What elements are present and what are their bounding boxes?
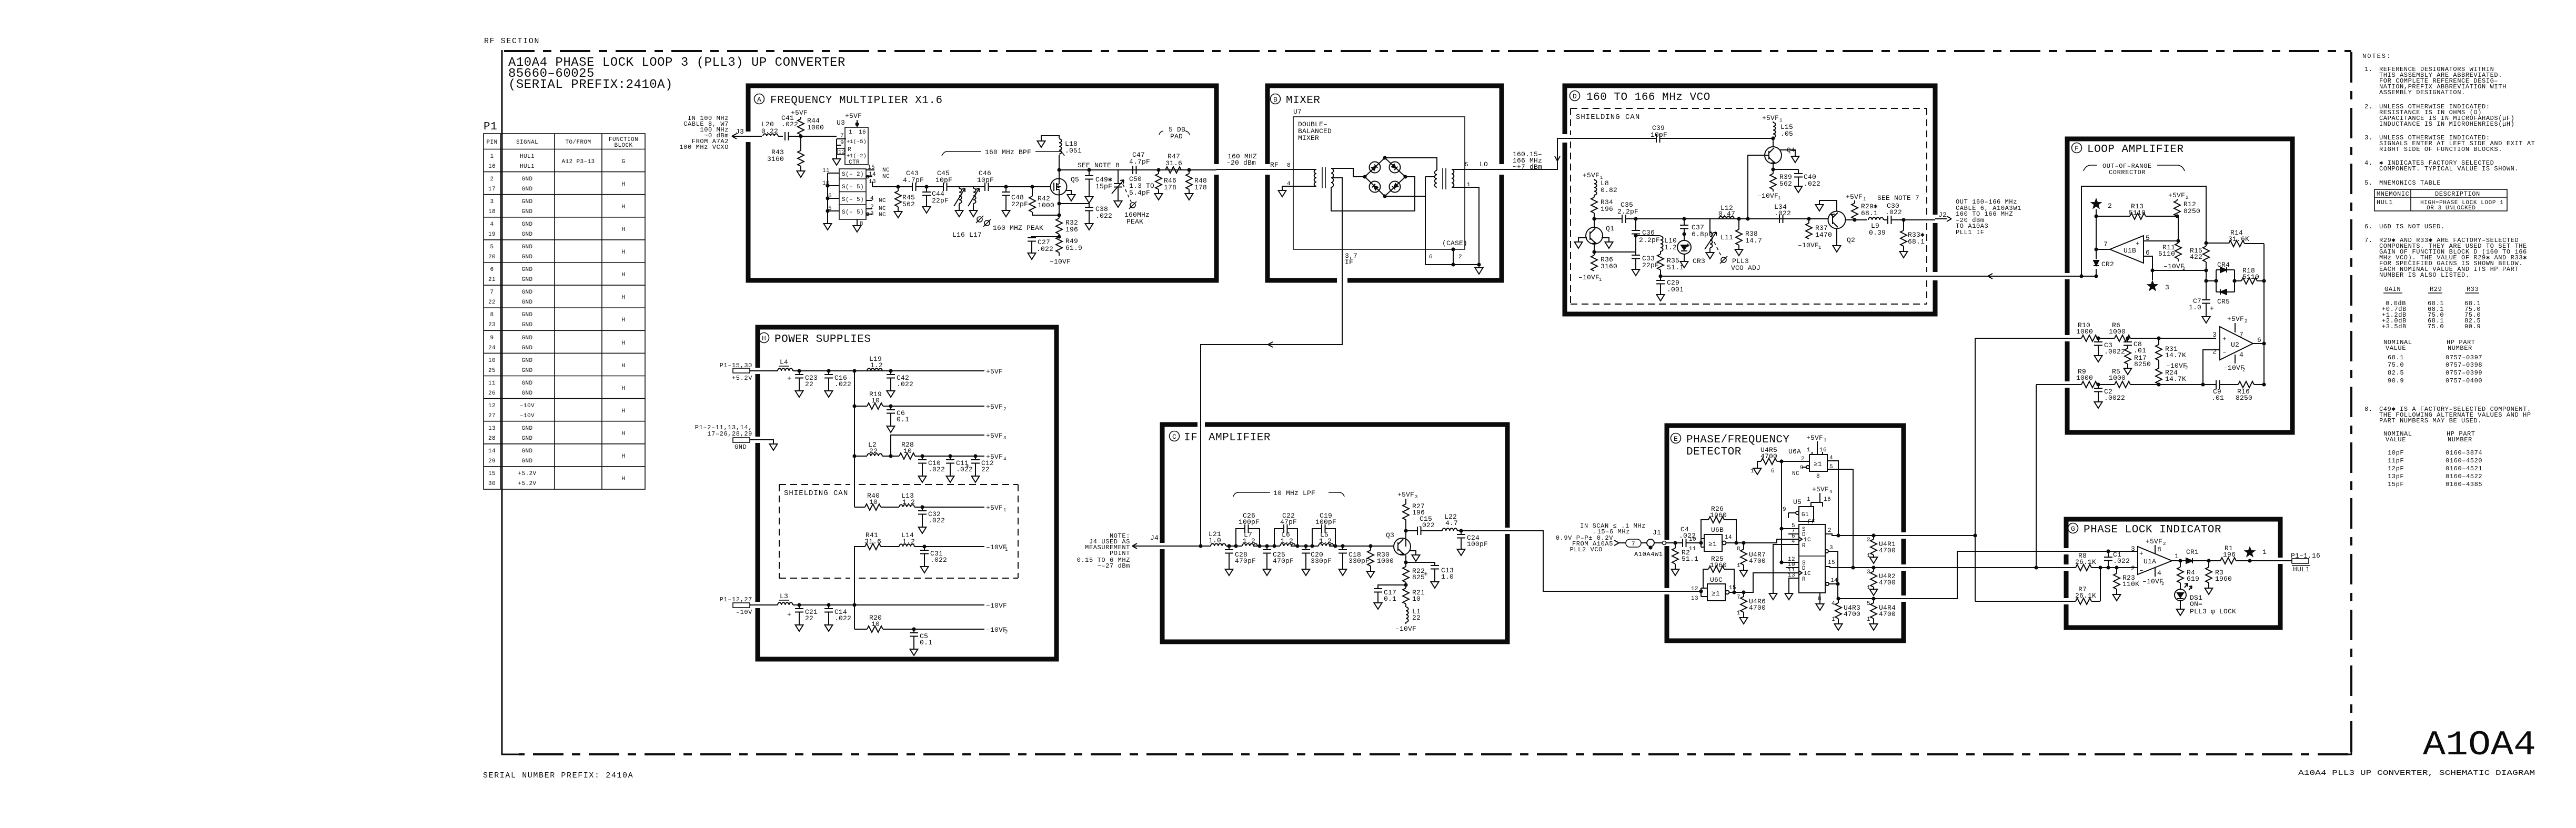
ground case: [1475, 266, 1483, 274]
svg-text:30: 30: [488, 481, 496, 487]
svg-text:0.22: 0.22: [761, 127, 778, 135]
svg-text:H: H: [621, 249, 625, 256]
resistor R49: [1050, 237, 1082, 266]
svg-text:26.1K: 26.1K: [2075, 558, 2096, 566]
svg-text:E: E: [1674, 435, 1678, 443]
resistor R4: [2177, 561, 2199, 589]
resistor R38: [1736, 217, 1762, 247]
wire IF tap: [1331, 178, 1342, 280]
ground below DS1: [2177, 607, 2185, 615]
capacitor C14: [824, 603, 851, 623]
node block H border: [758, 327, 1056, 659]
svg-text:10: 10: [871, 620, 880, 628]
capacitor C21: [787, 603, 818, 623]
svg-text:+: +: [2139, 550, 2144, 558]
svg-text:31.6: 31.6: [1165, 159, 1182, 167]
svg-text:1.0: 1.0: [1441, 573, 1454, 581]
ground U3 input bus: [824, 221, 832, 230]
resistor R42: [1006, 185, 1054, 212]
svg-text:+5VF: +5VF: [1846, 193, 1863, 201]
svg-text:2: 2: [870, 204, 874, 210]
svg-text:SERIAL NUMBER PREFIX: 2410A: SERIAL NUMBER PREFIX: 2410A: [483, 771, 633, 780]
svg-text:1: 1: [1779, 118, 1782, 123]
capacitor C26 bridge: [1234, 512, 1261, 548]
svg-text:GND: GND: [521, 380, 532, 387]
capacitor C45: [927, 169, 959, 191]
svg-text:19: 19: [488, 231, 496, 238]
wire Q1 emitter: [1592, 243, 1636, 255]
svg-text:0757–0398: 0757–0398: [2446, 361, 2482, 369]
wire J3 input with arrow: [732, 134, 762, 139]
capacitor C15: [1406, 515, 1442, 535]
wire mixer IF output to IF amplifier: [1201, 280, 1342, 546]
svg-text:≥1: ≥1: [1708, 540, 1717, 548]
svg-text:+3.5dB: +3.5dB: [2382, 323, 2407, 330]
svg-text:17–26,28,29: 17–26,28,29: [707, 430, 752, 438]
svg-text:5: 5: [1465, 162, 1468, 168]
svg-text:2: 2: [2185, 366, 2188, 371]
svg-text:4700: 4700: [1749, 604, 1766, 612]
capacitor C48: [1002, 185, 1028, 208]
svg-text:PHASE LOCK INDICATOR: PHASE LOCK INDICATOR: [2084, 524, 2221, 536]
svg-text:Q2: Q2: [1847, 236, 1855, 244]
svg-text:GND: GND: [521, 335, 532, 341]
svg-text:PIN: PIN: [486, 139, 497, 146]
svg-text:1: 1: [1003, 508, 1006, 513]
resistor R46: [1155, 168, 1176, 191]
svg-text:–10V: –10V: [520, 403, 535, 409]
wire Q3 emitter node: [1404, 555, 1435, 567]
svg-text:22pF: 22pF: [1642, 261, 1659, 269]
resistor R5: [2109, 368, 2216, 388]
svg-text:U6A: U6A: [1788, 448, 1801, 456]
ground below C42: [887, 389, 895, 397]
inductor L9: [1868, 217, 1886, 237]
svg-text:+1(–5): +1(–5): [847, 139, 867, 145]
svg-text:NC: NC: [1792, 471, 1799, 477]
svg-text:+5VF: +5VF: [2168, 191, 2185, 199]
svg-text:SIGNAL: SIGNAL: [516, 139, 538, 146]
svg-text:GND: GND: [521, 254, 532, 260]
svg-text:9: 9: [1783, 507, 1786, 513]
svg-text:1.2: 1.2: [1243, 537, 1255, 545]
svg-text:4.: 4.: [2364, 159, 2373, 167]
resistor R47: [1165, 153, 1182, 173]
svg-text:NC: NC: [882, 167, 890, 174]
svg-text:3.: 3.: [2364, 134, 2373, 142]
wire U1A pin3 input line: [2066, 551, 2138, 552]
node block B border: [1267, 86, 1502, 280]
inductor L1: [1406, 607, 1421, 624]
svg-text:GND: GND: [521, 448, 532, 455]
capacitor C8: [2124, 336, 2146, 355]
wire U3 pin13 output to BPF: [872, 181, 898, 187]
svg-text:4.7: 4.7: [1445, 519, 1458, 527]
transistor Q4: [1765, 146, 1795, 164]
svg-text:7: 7: [1737, 594, 1740, 601]
svg-text:G1: G1: [1802, 512, 1809, 518]
svg-text:A12 P3–13: A12 P3–13: [561, 159, 595, 165]
capacitor C28: [1225, 544, 1256, 567]
svg-text:J3: J3: [736, 128, 744, 136]
svg-text:BLOCK: BLOCK: [614, 143, 632, 149]
svg-text:–10VF: –10VF: [986, 602, 1007, 610]
svg-text:H: H: [621, 317, 625, 324]
svg-text:4700: 4700: [1879, 547, 1896, 554]
inductor L18: [1041, 136, 1082, 179]
inductor L12: [1718, 204, 1735, 219]
svg-text:4700: 4700: [1879, 579, 1896, 587]
svg-text:196: 196: [2223, 551, 2236, 559]
resistor R30: [1367, 544, 1394, 569]
svg-text:14: 14: [488, 448, 496, 455]
resistor R37: [1798, 217, 1832, 250]
svg-text:2: 2: [2131, 564, 2135, 572]
wire U6C output to U5 pin11: [1729, 573, 1799, 594]
svg-text:H: H: [762, 335, 766, 342]
svg-text:GND: GND: [521, 458, 532, 465]
resistor U4R4: [1867, 599, 1896, 623]
svg-text:0.39: 0.39: [1869, 229, 1886, 237]
svg-text:–10VF: –10VF: [2164, 262, 2185, 270]
ground U5 ff: [1816, 593, 1824, 610]
ground below C18: [1339, 567, 1347, 575]
wire J2 output: [1935, 211, 1951, 221]
svg-text:H: H: [621, 386, 625, 392]
svg-text:L11: L11: [1720, 234, 1733, 241]
svg-text:GND: GND: [521, 426, 532, 432]
svg-text:–: –: [2136, 254, 2140, 262]
svg-text:TO/FROM: TO/FROM: [565, 139, 591, 146]
ground below C32: [919, 525, 927, 533]
ground below L16: [955, 208, 963, 217]
svg-text:3: 3: [1415, 494, 1417, 500]
wire Q4 emitter node: [1771, 164, 1798, 174]
svg-text:12: 12: [488, 403, 496, 409]
node tuning tool symbols: [976, 216, 983, 223]
wire U5 pin10 stub: [1786, 567, 1799, 568]
capacitor C47: [1129, 151, 1150, 174]
svg-text:8: 8: [2157, 546, 2161, 553]
resistor R33 (factory selected): [1900, 218, 1925, 249]
svg-text:(SERIAL PREFIX:2410A): (SERIAL PREFIX:2410A): [508, 78, 673, 92]
svg-text:P1: P1: [484, 121, 497, 133]
svg-text:31.6K: 31.6K: [2228, 235, 2249, 243]
wire VCO LO feed to mixer: [1502, 138, 1565, 171]
svg-text:196: 196: [1601, 205, 1613, 213]
svg-text:POINT: POINT: [1110, 550, 1130, 557]
ground P1 GND: [770, 442, 778, 450]
wire U5 pin13 reset to ground: [1785, 578, 1799, 600]
svg-text:8250: 8250: [2183, 207, 2200, 215]
svg-text:1: 1: [1824, 438, 1826, 443]
svg-text:10: 10: [488, 358, 496, 364]
wire U5 pin3 output: [1825, 545, 1838, 584]
ground below U4R3: [1835, 622, 1843, 630]
svg-text:51.1: 51.1: [1667, 264, 1684, 271]
svg-text:9: 9: [1800, 465, 1804, 471]
resistor R29 (factory selected): [1846, 193, 1878, 222]
wire Q5 shield ground: [1065, 190, 1071, 193]
svg-text:H: H: [621, 340, 625, 347]
svg-text:U5: U5: [1793, 498, 1802, 506]
wire U6B output: [1726, 539, 1799, 543]
wire E output A to F and G: [1906, 338, 2067, 601]
svg-text:68.1: 68.1: [1908, 238, 1925, 246]
svg-text:178: 178: [1164, 184, 1176, 191]
ground below C11: [947, 474, 954, 482]
svg-text:75.0: 75.0: [2428, 323, 2444, 330]
svg-text:0160–4385: 0160–4385: [2446, 481, 2482, 488]
svg-text:68.1: 68.1: [2388, 354, 2404, 361]
resistor R31: [2156, 336, 2186, 360]
ground below C7: [2202, 315, 2210, 323]
svg-text:14: 14: [1725, 534, 1732, 541]
svg-text:2: 2: [2108, 202, 2112, 210]
svg-text:RIGHT SIDE OF FUNCTION BLOCKS.: RIGHT SIDE OF FUNCTION BLOCKS.: [2379, 146, 2502, 153]
svg-text:R: R: [1802, 577, 1806, 583]
svg-text:562: 562: [902, 200, 915, 208]
svg-text:U1B: U1B: [2124, 247, 2136, 255]
resistor R26: [1701, 505, 1738, 545]
svg-text:NC: NC: [882, 174, 890, 180]
svg-text:18: 18: [488, 209, 496, 215]
svg-text:22: 22: [1412, 614, 1421, 622]
svg-text:(CASE): (CASE): [1442, 239, 1467, 247]
ground U3 pin9: [833, 157, 841, 165]
svg-text:U6B: U6B: [1711, 526, 1724, 534]
svg-text:.022: .022: [1037, 245, 1053, 253]
svg-text:GND: GND: [521, 299, 532, 306]
capacitor C36: [1632, 217, 1660, 255]
wire Q5 source node: [1057, 195, 1061, 218]
node block G border: [2066, 519, 2280, 628]
wire ring top vertex to T2: [1385, 158, 1437, 170]
svg-text:H: H: [621, 431, 625, 437]
svg-text:5.: 5.: [2364, 179, 2373, 187]
svg-text:100pF: 100pF: [1467, 540, 1488, 548]
node P1 table header: [486, 137, 638, 149]
wire IF main line: [1162, 546, 1394, 547]
resistor R2: [1672, 541, 1698, 567]
resistor R23: [2114, 566, 2139, 592]
ground below R30: [1367, 569, 1375, 578]
svg-text:4: 4: [1003, 457, 1006, 462]
svg-text:J4: J4: [1150, 534, 1159, 542]
resistor U4R5: [1750, 446, 1809, 474]
svg-text:+5VF: +5VF: [845, 112, 862, 120]
svg-text:R: R: [1802, 543, 1806, 549]
inductor L22: [1442, 513, 1507, 531]
svg-text:FREQUENCY MULTIPLIER X1.6: FREQUENCY MULTIPLIER X1.6: [770, 95, 943, 107]
svg-text:MIXER: MIXER: [1286, 95, 1321, 107]
svg-text:2: 2: [1003, 407, 1006, 412]
svg-text:–: –: [2139, 567, 2144, 574]
wire gate feed: [1032, 186, 1051, 187]
svg-text:–10V: –10V: [736, 609, 752, 616]
svg-text:SHIELDING CAN: SHIELDING CAN: [784, 489, 848, 498]
svg-text:≥1: ≥1: [1712, 590, 1720, 598]
svg-text:22: 22: [805, 380, 813, 388]
capacitor C12: [965, 454, 994, 474]
LED DS1: [2175, 583, 2236, 615]
svg-text:GND: GND: [521, 176, 532, 183]
svg-text:J1: J1: [1653, 529, 1661, 537]
capacitor C4: [1679, 526, 1701, 547]
svg-text:4700: 4700: [1749, 557, 1766, 565]
svg-text:–10VF: –10VF: [2142, 578, 2164, 585]
resistor R44: [791, 109, 824, 136]
inductor L10: [1636, 236, 1677, 251]
ground below R23: [2113, 592, 2121, 601]
svg-text:GND: GND: [521, 267, 532, 273]
capacitor C46: [973, 169, 1006, 191]
resistor R35: [1657, 251, 1684, 280]
ground below L11: [1706, 250, 1714, 259]
node diode ring: [1363, 156, 1407, 198]
ground below C50: [1114, 199, 1122, 207]
wire VCO tune line: [1661, 274, 2067, 279]
svg-text:1: 1: [1737, 610, 1740, 617]
svg-text:160 MHZ PEAK: 160 MHZ PEAK: [993, 224, 1043, 232]
wire U5 pin7 stub: [1788, 533, 1799, 534]
wire Q4 base riser: [1746, 155, 1765, 221]
resistor R16: [2220, 381, 2264, 402]
svg-text:1: 1: [1867, 617, 1870, 623]
svg-text:–10VF: –10VF: [2223, 364, 2245, 372]
capacitor C16: [824, 369, 851, 389]
capacitor C43: [898, 169, 927, 191]
ground below C10: [919, 474, 927, 482]
svg-text:Q3: Q3: [1386, 531, 1394, 539]
resistor R14: [2206, 229, 2264, 247]
svg-text:100pF: 100pF: [1315, 518, 1336, 526]
svg-text:ON=: ON=: [2190, 600, 2202, 608]
wire U6A pin5 drop: [1827, 469, 1853, 568]
svg-text:.0022: .0022: [2104, 348, 2125, 356]
svg-text:1000: 1000: [2109, 374, 2126, 382]
ground below C5: [910, 647, 918, 655]
svg-text:~–27 dBm: ~–27 dBm: [1098, 562, 1130, 570]
svg-text:11pF: 11pF: [2388, 457, 2404, 465]
svg-text:2: 2: [2161, 581, 2164, 587]
resistor R21: [1403, 588, 1425, 607]
inductor L16 (tunable): [954, 187, 965, 208]
wire feedback vertical: [2262, 244, 2266, 387]
svg-text:3: 3: [1829, 545, 1833, 551]
resistor R18: [2235, 267, 2264, 284]
svg-text:11: 11: [488, 380, 496, 387]
svg-text:26: 26: [488, 390, 496, 397]
capacitor C17: [1374, 582, 1408, 603]
svg-text:.022: .022: [1885, 208, 1902, 216]
svg-text:6: 6: [2257, 336, 2261, 344]
inductor L20: [761, 120, 783, 136]
ground Q5 shield: [1068, 193, 1075, 201]
svg-text:470pF: 470pF: [1273, 557, 1294, 565]
svg-text:+: +: [2210, 305, 2214, 312]
capacitor C24: [1457, 529, 1488, 548]
svg-text:.022: .022: [956, 466, 973, 473]
svg-text:16: 16: [1819, 447, 1827, 453]
svg-text:21: 21: [488, 277, 496, 283]
svg-text:SEE NOTE 7: SEE NOTE 7: [1877, 194, 1919, 202]
svg-text:4700: 4700: [1879, 610, 1896, 618]
svg-text:196: 196: [1065, 226, 1078, 234]
svg-text:.001: .001: [1667, 286, 1684, 294]
svg-text:+5VF: +5VF: [986, 368, 1003, 376]
svg-text:GND: GND: [521, 199, 532, 205]
capacitor C11: [946, 454, 973, 474]
svg-text:HUL1: HUL1: [520, 164, 535, 170]
capacitor C39: [1565, 124, 1773, 143]
svg-text:+5.2V: +5.2V: [518, 481, 536, 487]
svg-text:GND: GND: [521, 209, 532, 215]
svg-text:–10VF: –10VF: [1757, 192, 1778, 200]
node block E title: [1671, 433, 1681, 443]
resistor R8: [2066, 552, 2138, 571]
svg-text:–10V: –10V: [520, 413, 535, 419]
svg-text:1: 1: [2175, 552, 2179, 560]
node block H title: [759, 333, 769, 343]
svg-text:IF: IF: [1184, 432, 1198, 444]
wire U2 output: [2253, 343, 2264, 344]
ground below C40: [1795, 184, 1803, 193]
resistor R13: [2096, 203, 2177, 219]
svg-text:CR3: CR3: [1693, 257, 1705, 265]
capacitor C5: [910, 627, 932, 647]
svg-text:.022: .022: [1804, 180, 1820, 188]
svg-text:+: +: [787, 611, 791, 619]
ground below R33: [1900, 249, 1908, 258]
ground below C44: [923, 205, 931, 213]
inductor L19: [852, 355, 883, 373]
ground below U4R4: [1870, 622, 1878, 630]
svg-text:0.1: 0.1: [920, 639, 932, 647]
resistor R34: [1591, 195, 1613, 227]
inductor L11 (tunable): [1705, 219, 1733, 250]
svg-text:1.2: 1.2: [1319, 537, 1332, 545]
node J1 connector: [1653, 529, 1683, 545]
wire U1B pin5 input: [2144, 216, 2180, 243]
svg-text:12: 12: [838, 149, 846, 156]
wire U1B pin6 input path: [2144, 256, 2217, 283]
ground below C6: [887, 424, 895, 432]
svg-text:110K: 110K: [2122, 580, 2139, 588]
wire E output B to F and G: [1906, 385, 2067, 570]
ground below C2: [2095, 400, 2102, 408]
svg-text:NUMBER IS ALSO LISTED.: NUMBER IS ALSO LISTED.: [2379, 271, 2470, 279]
svg-text:1: 1: [1737, 563, 1740, 569]
wire E output C to G: [1906, 551, 2066, 599]
ground below C31: [921, 564, 929, 573]
ground below C29: [1657, 292, 1665, 301]
svg-text:75.0: 75.0: [2388, 361, 2404, 369]
svg-text:1.2: 1.2: [902, 538, 915, 546]
wire right frame border (dashed): [2350, 52, 2352, 754]
wire +5VF3 rail: [891, 432, 1006, 456]
svg-text:.01: .01: [2134, 347, 2146, 355]
svg-text:GND: GND: [521, 390, 532, 397]
node shielding can: [1571, 108, 1927, 304]
svg-text:1960: 1960: [2215, 575, 2232, 583]
svg-text:≥1: ≥1: [1814, 460, 1822, 468]
ground below C14: [825, 623, 833, 631]
svg-text:–10VF: –10VF: [1395, 625, 1416, 633]
svg-text:L16 L17: L16 L17: [952, 231, 982, 239]
svg-text:+: +: [787, 375, 791, 382]
svg-text:10: 10: [1689, 537, 1696, 543]
